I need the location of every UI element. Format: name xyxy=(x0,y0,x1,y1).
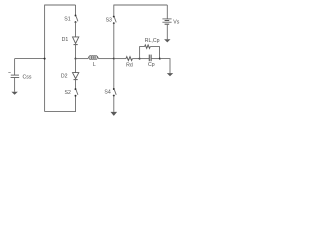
wire: S1 top lead xyxy=(75,5,77,15)
ground (below Css) xyxy=(11,92,17,95)
wire: Cp to node C xyxy=(151,58,160,60)
node: Css junction on left rail xyxy=(44,58,46,60)
node B junction xyxy=(113,58,115,60)
wire: node A to inductor xyxy=(76,58,89,60)
wire: left loop bottom rail xyxy=(45,111,76,113)
resistor Rd xyxy=(126,57,132,61)
wire: Css branch horizontal xyxy=(15,58,45,60)
diode D1 xyxy=(73,37,79,45)
svg-text:RL,Cp: RL,Cp xyxy=(145,38,160,44)
wire: S3 to node B xyxy=(113,23,115,58)
svg-text:Vs: Vs xyxy=(173,19,179,25)
svg-text:Rd: Rd xyxy=(126,63,133,69)
capacitor Css xyxy=(8,72,19,77)
svg-text:S3: S3 xyxy=(106,17,112,23)
wire: D2 to S2 xyxy=(75,80,77,89)
wire: parallel branch left riser xyxy=(140,47,145,59)
inductor L xyxy=(88,56,99,60)
switch S1 xyxy=(75,15,78,23)
node D junction xyxy=(139,58,141,60)
wire: D1 to node A xyxy=(75,45,77,59)
wire: inductor to node B xyxy=(99,58,114,60)
capacitor Cp xyxy=(149,55,151,62)
switch S2 xyxy=(75,88,78,97)
wire: node D to Cp xyxy=(140,58,150,60)
wire: Css top lead xyxy=(14,59,16,75)
svg-text:S1: S1 xyxy=(64,17,70,23)
wire: top rail to Vs xyxy=(166,5,168,19)
wire: left loop right vertical from S2 to bottom rail xyxy=(75,96,77,112)
svg-text:L: L xyxy=(93,62,96,68)
wire: left loop top rail xyxy=(45,4,76,6)
switch S4 xyxy=(113,88,116,97)
wire: node B to S4 xyxy=(113,59,115,89)
wire: parallel branch right riser xyxy=(150,47,159,59)
diode D2 xyxy=(73,73,79,80)
ground (output, below jog) xyxy=(167,73,173,76)
wire: node A to D2 xyxy=(75,59,77,73)
svg-text:D2: D2 xyxy=(61,74,68,80)
svg-text:Cp: Cp xyxy=(148,62,155,68)
wire: S4 bottom lead xyxy=(113,96,115,112)
wire: S1 to D1 xyxy=(75,22,77,37)
wire: right section top rail xyxy=(114,4,168,6)
ground (below S4) xyxy=(111,112,118,116)
svg-text:D1: D1 xyxy=(62,37,69,43)
svg-text:S4: S4 xyxy=(104,89,110,95)
wire: left loop left vertical xyxy=(44,5,46,112)
switch S3 xyxy=(113,16,116,24)
wire: node B to Rd xyxy=(114,58,126,60)
battery Vs xyxy=(162,19,171,24)
wire: node C to output ground jog xyxy=(160,59,170,74)
wire: Vs bottom lead xyxy=(166,24,168,39)
wire: Rd to node D xyxy=(132,58,139,60)
wire: S3 top lead xyxy=(113,5,115,17)
svg-text:S2: S2 xyxy=(65,90,71,96)
svg-text:Css: Css xyxy=(23,75,32,81)
wire: Css bottom lead xyxy=(14,78,16,92)
resistor RL (top branch) xyxy=(145,45,151,48)
ground (below Vs) xyxy=(164,39,170,42)
node C junction xyxy=(159,58,161,60)
node A junction xyxy=(75,58,77,60)
